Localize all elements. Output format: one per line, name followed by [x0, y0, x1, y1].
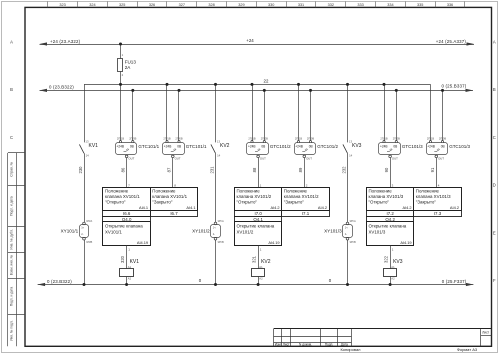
svg-text:2-: 2-: [213, 232, 215, 236]
svg-text:ЭП/В: ЭП/В: [218, 240, 224, 244]
svg-text:A: A: [493, 40, 496, 45]
svg-text:клапана XV101/1: клапана XV101/1: [105, 194, 140, 199]
svg-text:Инв. № дубл.: Инв. № дубл.: [9, 229, 13, 249]
svg-text:FU13: FU13: [125, 60, 137, 65]
svg-text:2П/1В: 2П/1В: [117, 137, 124, 141]
svg-text:E: E: [493, 230, 496, 235]
svg-text:22: 22: [264, 78, 269, 83]
svg-text:ЭП/В: ЭП/В: [86, 240, 92, 244]
svg-text:KV3: KV3: [393, 259, 403, 265]
svg-text:AI4.19: AI4.19: [268, 240, 279, 245]
svg-text:D: D: [493, 183, 496, 188]
svg-text:I7.1: I7.1: [302, 211, 310, 216]
svg-text:89: 89: [298, 167, 303, 172]
svg-text:A2: A2: [128, 277, 132, 281]
svg-text:+24В: +24В: [248, 145, 256, 149]
svg-text:I6.6: I6.6: [123, 211, 131, 216]
svg-text:321: 321: [252, 255, 257, 263]
svg-text:AI4.1: AI4.1: [139, 205, 148, 210]
svg-text:Q4.0: Q4.0: [122, 217, 132, 222]
svg-text:ЭП/В: ЭП/В: [350, 240, 356, 244]
svg-text:ЭП/А: ЭП/А: [86, 219, 92, 223]
svg-text:332: 332: [328, 3, 334, 7]
svg-text:2-: 2-: [81, 232, 83, 236]
svg-text:+24В: +24В: [427, 145, 435, 149]
svg-text:91: 91: [430, 167, 435, 172]
svg-text:0 (25.B337): 0 (25.B337): [441, 84, 466, 89]
svg-text:GTC101/2: GTC101/2: [270, 144, 291, 149]
svg-text:A2: A2: [259, 277, 263, 281]
svg-text:OUT: OUT: [175, 157, 181, 161]
svg-text:Положение: Положение: [284, 189, 308, 194]
svg-text:232: 232: [341, 166, 346, 174]
svg-text:88: 88: [252, 167, 257, 172]
svg-text:XY101/1: XY101/1: [61, 229, 79, 234]
svg-text:Лист: Лист: [283, 343, 290, 347]
svg-text:334: 334: [387, 3, 393, 7]
svg-text:AI4.2: AI4.2: [318, 205, 327, 210]
svg-text:Положение: Положение: [369, 189, 393, 194]
svg-text:323: 323: [59, 3, 65, 7]
svg-text:AI4.19: AI4.19: [400, 240, 411, 245]
svg-text:"Закрыто": "Закрыто": [152, 200, 173, 205]
svg-text:2А: 2А: [125, 65, 132, 70]
svg-text:"Закрыто": "Закрыто": [284, 200, 305, 205]
svg-text:A1: A1: [391, 265, 395, 269]
svg-text:2П/1В: 2П/1В: [380, 137, 387, 141]
svg-text:AI4.2: AI4.2: [271, 205, 280, 210]
svg-text:AI4.1: AI4.1: [186, 205, 195, 210]
svg-text:A1: A1: [259, 265, 263, 269]
svg-text:Копировал: Копировал: [340, 347, 361, 352]
svg-text:0В: 0В: [309, 145, 313, 149]
svg-text:OUT: OUT: [128, 157, 134, 161]
svg-text:2П/0В: 2П/0В: [175, 137, 182, 141]
svg-text:+24В: +24В: [117, 145, 125, 149]
svg-text:333: 333: [357, 3, 363, 7]
svg-text:0В: 0В: [393, 145, 397, 149]
svg-text:GTC101/1: GTC101/1: [186, 144, 207, 149]
svg-text:GTC101/3: GTC101/3: [449, 144, 470, 149]
svg-text:0В: 0В: [261, 145, 265, 149]
svg-text:OUT: OUT: [260, 157, 266, 161]
svg-text:2П/1В: 2П/1В: [248, 137, 255, 141]
svg-text:OUT: OUT: [438, 157, 444, 161]
svg-text:"Открыто": "Открыто": [369, 200, 390, 205]
svg-text:KV1: KV1: [130, 259, 140, 265]
svg-text:230: 230: [78, 166, 83, 174]
svg-text:331: 331: [298, 3, 304, 7]
svg-text:+24 (25.A337): +24 (25.A337): [436, 39, 467, 44]
svg-text:2П/0В: 2П/0В: [129, 137, 136, 141]
svg-text:Подп. и дата: Подп. и дата: [9, 196, 13, 216]
svg-text:0В: 0В: [441, 145, 445, 149]
svg-text:90: 90: [384, 167, 389, 172]
svg-text:"Открыто": "Открыто": [105, 200, 126, 205]
svg-text:Открытие клапана: Открытие клапана: [369, 224, 407, 229]
svg-text:325: 325: [119, 3, 125, 7]
svg-text:KV2: KV2: [261, 259, 271, 265]
svg-text:KV1: KV1: [89, 143, 99, 149]
svg-text:326: 326: [149, 3, 155, 7]
svg-text:C: C: [493, 135, 496, 140]
svg-text:N докум.: N докум.: [299, 343, 312, 347]
svg-text:Положение: Положение: [152, 189, 176, 194]
svg-text:+24В: +24В: [164, 145, 172, 149]
svg-text:Подп. и дата: Подп. и дата: [9, 287, 13, 307]
svg-text:A: A: [10, 40, 13, 45]
svg-text:Открытие клапана: Открытие клапана: [105, 224, 143, 229]
svg-text:C: C: [10, 135, 13, 140]
svg-text:"Открыто": "Открыто": [237, 200, 258, 205]
svg-text:Взам. инв. №: Взам. инв. №: [9, 254, 13, 275]
svg-text:86: 86: [120, 167, 125, 172]
svg-text:328: 328: [208, 3, 214, 7]
svg-text:231: 231: [209, 166, 214, 174]
svg-text:AI4.2: AI4.2: [450, 205, 459, 210]
svg-text:336: 336: [447, 3, 453, 7]
svg-text:F: F: [493, 278, 496, 283]
svg-text:329: 329: [238, 3, 244, 7]
svg-text:XV101/3: XV101/3: [369, 229, 386, 234]
svg-text:0 (23.B322): 0 (23.B322): [47, 279, 72, 284]
svg-text:Подп.: Подп.: [325, 343, 334, 347]
svg-text:OUT: OUT: [392, 157, 398, 161]
svg-text:ЭП/А: ЭП/А: [218, 219, 224, 223]
svg-text:Справ. №: Справ. №: [9, 161, 13, 176]
svg-text:322: 322: [384, 255, 389, 263]
svg-text:XV101/1: XV101/1: [105, 229, 122, 234]
svg-text:Лист: Лист: [482, 330, 489, 334]
svg-text:клапана XV101/2: клапана XV101/2: [284, 194, 319, 199]
svg-text:Положение: Положение: [416, 189, 440, 194]
svg-text:AI4.2: AI4.2: [403, 205, 412, 210]
svg-text:Q4.1: Q4.1: [253, 217, 263, 222]
svg-text:GTC101/2: GTC101/2: [317, 144, 338, 149]
svg-text:I6.7: I6.7: [170, 211, 178, 216]
svg-text:I7.2: I7.2: [386, 211, 394, 216]
svg-text:клапана XV101/3: клапана XV101/3: [416, 194, 451, 199]
svg-text:14: 14: [217, 154, 221, 158]
svg-text:+24В: +24В: [380, 145, 388, 149]
svg-text:клапана XV101/1: клапана XV101/1: [152, 194, 187, 199]
svg-text:XV101/2: XV101/2: [237, 229, 254, 234]
svg-text:0В: 0В: [130, 145, 134, 149]
svg-text:335: 335: [417, 3, 423, 7]
svg-text:+24: +24: [246, 38, 254, 43]
svg-text:Открытие клапана: Открытие клапана: [237, 224, 275, 229]
svg-text:клапана XV101/3: клапана XV101/3: [369, 194, 404, 199]
svg-text:324: 324: [89, 3, 95, 7]
svg-text:B: B: [493, 87, 496, 92]
svg-text:A2: A2: [391, 277, 395, 281]
svg-text:клапана XV101/2: клапана XV101/2: [237, 194, 272, 199]
svg-text:I7.0: I7.0: [254, 211, 262, 216]
svg-text:Формат А3: Формат А3: [457, 347, 478, 352]
svg-text:Положение: Положение: [237, 189, 261, 194]
svg-text:2П/1В: 2П/1В: [163, 137, 170, 141]
svg-text:B: B: [10, 87, 13, 92]
svg-text:0В: 0В: [177, 145, 181, 149]
svg-text:0 (23.B322): 0 (23.B322): [49, 85, 74, 90]
svg-text:GTC101/3: GTC101/3: [402, 144, 423, 149]
svg-text:87: 87: [166, 167, 171, 172]
svg-text:"Закрыто": "Закрыто": [416, 200, 437, 205]
svg-text:XY101/3: XY101/3: [324, 229, 342, 234]
svg-text:A1: A1: [128, 265, 132, 269]
svg-text:+24В: +24В: [295, 145, 303, 149]
svg-text:Инв. № подл.: Инв. № подл.: [9, 320, 13, 341]
svg-text:XY101/2: XY101/2: [192, 229, 210, 234]
svg-text:330: 330: [268, 3, 274, 7]
svg-text:ЭП/А: ЭП/А: [350, 219, 356, 223]
svg-text:+24 (23.A322): +24 (23.A322): [50, 39, 81, 44]
svg-text:14: 14: [349, 154, 353, 158]
svg-text:OUT: OUT: [306, 157, 312, 161]
svg-text:14: 14: [86, 154, 90, 158]
svg-text:I7.3: I7.3: [434, 211, 442, 216]
svg-text:Положение: Положение: [105, 189, 129, 194]
svg-text:KV2: KV2: [220, 143, 230, 149]
svg-text:Изм: Изм: [275, 343, 281, 347]
svg-text:GTC101/1: GTC101/1: [138, 144, 159, 149]
svg-text:KV3: KV3: [352, 143, 362, 149]
svg-text:320: 320: [120, 255, 125, 263]
svg-text:AI4.19: AI4.19: [137, 240, 148, 245]
svg-text:0 (25.F337): 0 (25.F337): [442, 279, 467, 284]
svg-text:Q4.2: Q4.2: [385, 217, 395, 222]
svg-text:327: 327: [179, 3, 185, 7]
svg-text:2-: 2-: [345, 232, 347, 236]
